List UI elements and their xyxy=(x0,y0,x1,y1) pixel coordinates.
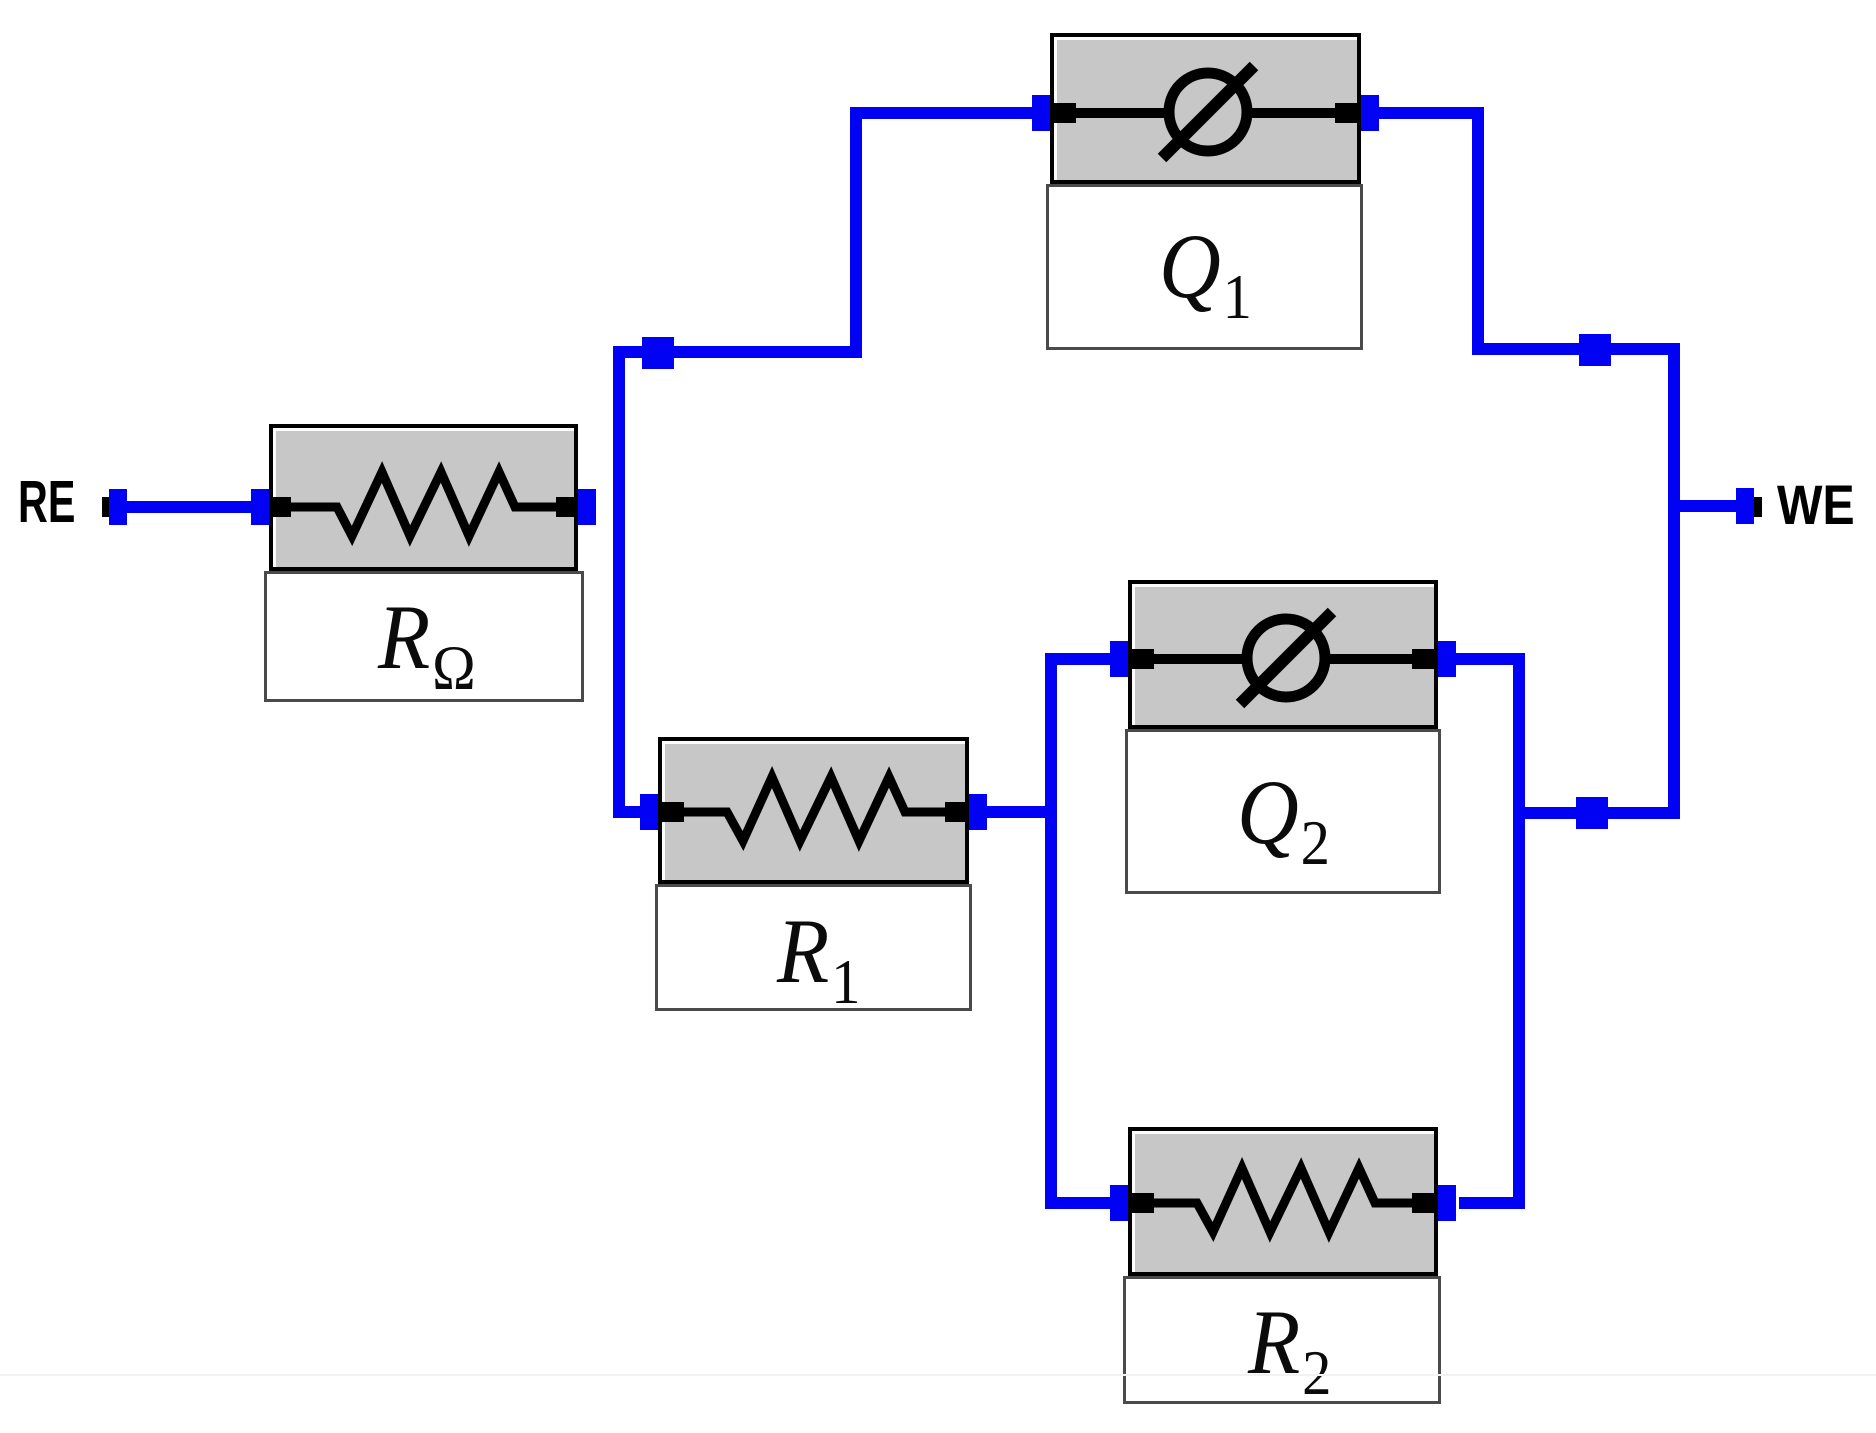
node WE terminal xyxy=(1736,488,1754,524)
wire R2 right lead xyxy=(1459,1197,1525,1209)
wire R1 left lead xyxy=(613,806,642,818)
pin R1 left xyxy=(660,802,684,822)
pin Q2 right xyxy=(1412,649,1436,669)
node R2 right terminal xyxy=(1438,1185,1456,1221)
pin RΩ right xyxy=(556,497,580,517)
wire Q2-R2 right vertical xyxy=(1513,653,1525,1209)
wire RE stub xyxy=(120,501,260,513)
wire R1 right lead xyxy=(987,806,1057,818)
label RE xyxy=(18,481,75,524)
pin Q2 left xyxy=(1130,649,1154,669)
faint page rule xyxy=(0,1374,1876,1376)
wire R2 left lead xyxy=(1045,1197,1113,1209)
node RE terminal tick xyxy=(102,497,111,517)
pin RΩ left xyxy=(267,497,291,517)
resistor R2 body xyxy=(1128,1127,1438,1276)
wire top-right vertical drop xyxy=(1472,107,1484,355)
wire bottom-right horizontal xyxy=(1513,807,1680,819)
resistor R1 body xyxy=(658,737,969,884)
node Q1 left terminal xyxy=(1032,95,1050,131)
node R1 left terminal xyxy=(640,794,658,830)
label WE xyxy=(1777,484,1855,525)
node R2 left terminal xyxy=(1110,1185,1128,1221)
label Q2 xyxy=(1125,729,1441,894)
node WE terminal tick xyxy=(1753,497,1762,517)
pin Q1 left xyxy=(1052,103,1076,123)
pin Q1 right xyxy=(1335,103,1359,123)
label R1 xyxy=(655,884,972,1011)
label R2 xyxy=(1123,1276,1441,1404)
node RΩ left terminal xyxy=(251,489,269,525)
node junction bottom-right xyxy=(1576,797,1608,829)
CPE Q2 body xyxy=(1128,580,1438,729)
pin R1 right xyxy=(945,802,969,822)
wire from Q1 right xyxy=(1378,107,1484,119)
wire right rail vertical xyxy=(1668,343,1680,819)
CPE Q1 body xyxy=(1050,33,1361,184)
label RΩ xyxy=(264,571,584,702)
wire WE stub xyxy=(1668,500,1738,512)
node RE terminal xyxy=(109,489,127,525)
wire Q2 left lead xyxy=(1045,653,1110,665)
node Q2 right terminal xyxy=(1438,641,1456,677)
wire Q2 right lead xyxy=(1456,653,1525,665)
wire middle rail vertical xyxy=(1045,653,1057,1209)
node Q1 right terminal xyxy=(1361,95,1379,131)
wire top-left lower horizontal xyxy=(613,346,862,358)
wire top-left vertical riser xyxy=(850,107,862,358)
wire top-right horizontal xyxy=(1472,343,1680,355)
node junction top-right xyxy=(1579,334,1611,366)
node Q2 left terminal xyxy=(1110,641,1128,677)
node R1 right terminal xyxy=(969,794,987,830)
node junction top-left xyxy=(642,337,674,369)
node RΩ right terminal xyxy=(578,489,596,525)
resistor RΩ body xyxy=(269,424,578,571)
wire top horizontal to Q1 xyxy=(850,107,1034,119)
pin R2 right xyxy=(1412,1193,1436,1213)
label Q1 xyxy=(1046,184,1363,350)
pin R2 left xyxy=(1130,1193,1154,1213)
wire left rail vertical xyxy=(613,346,625,818)
